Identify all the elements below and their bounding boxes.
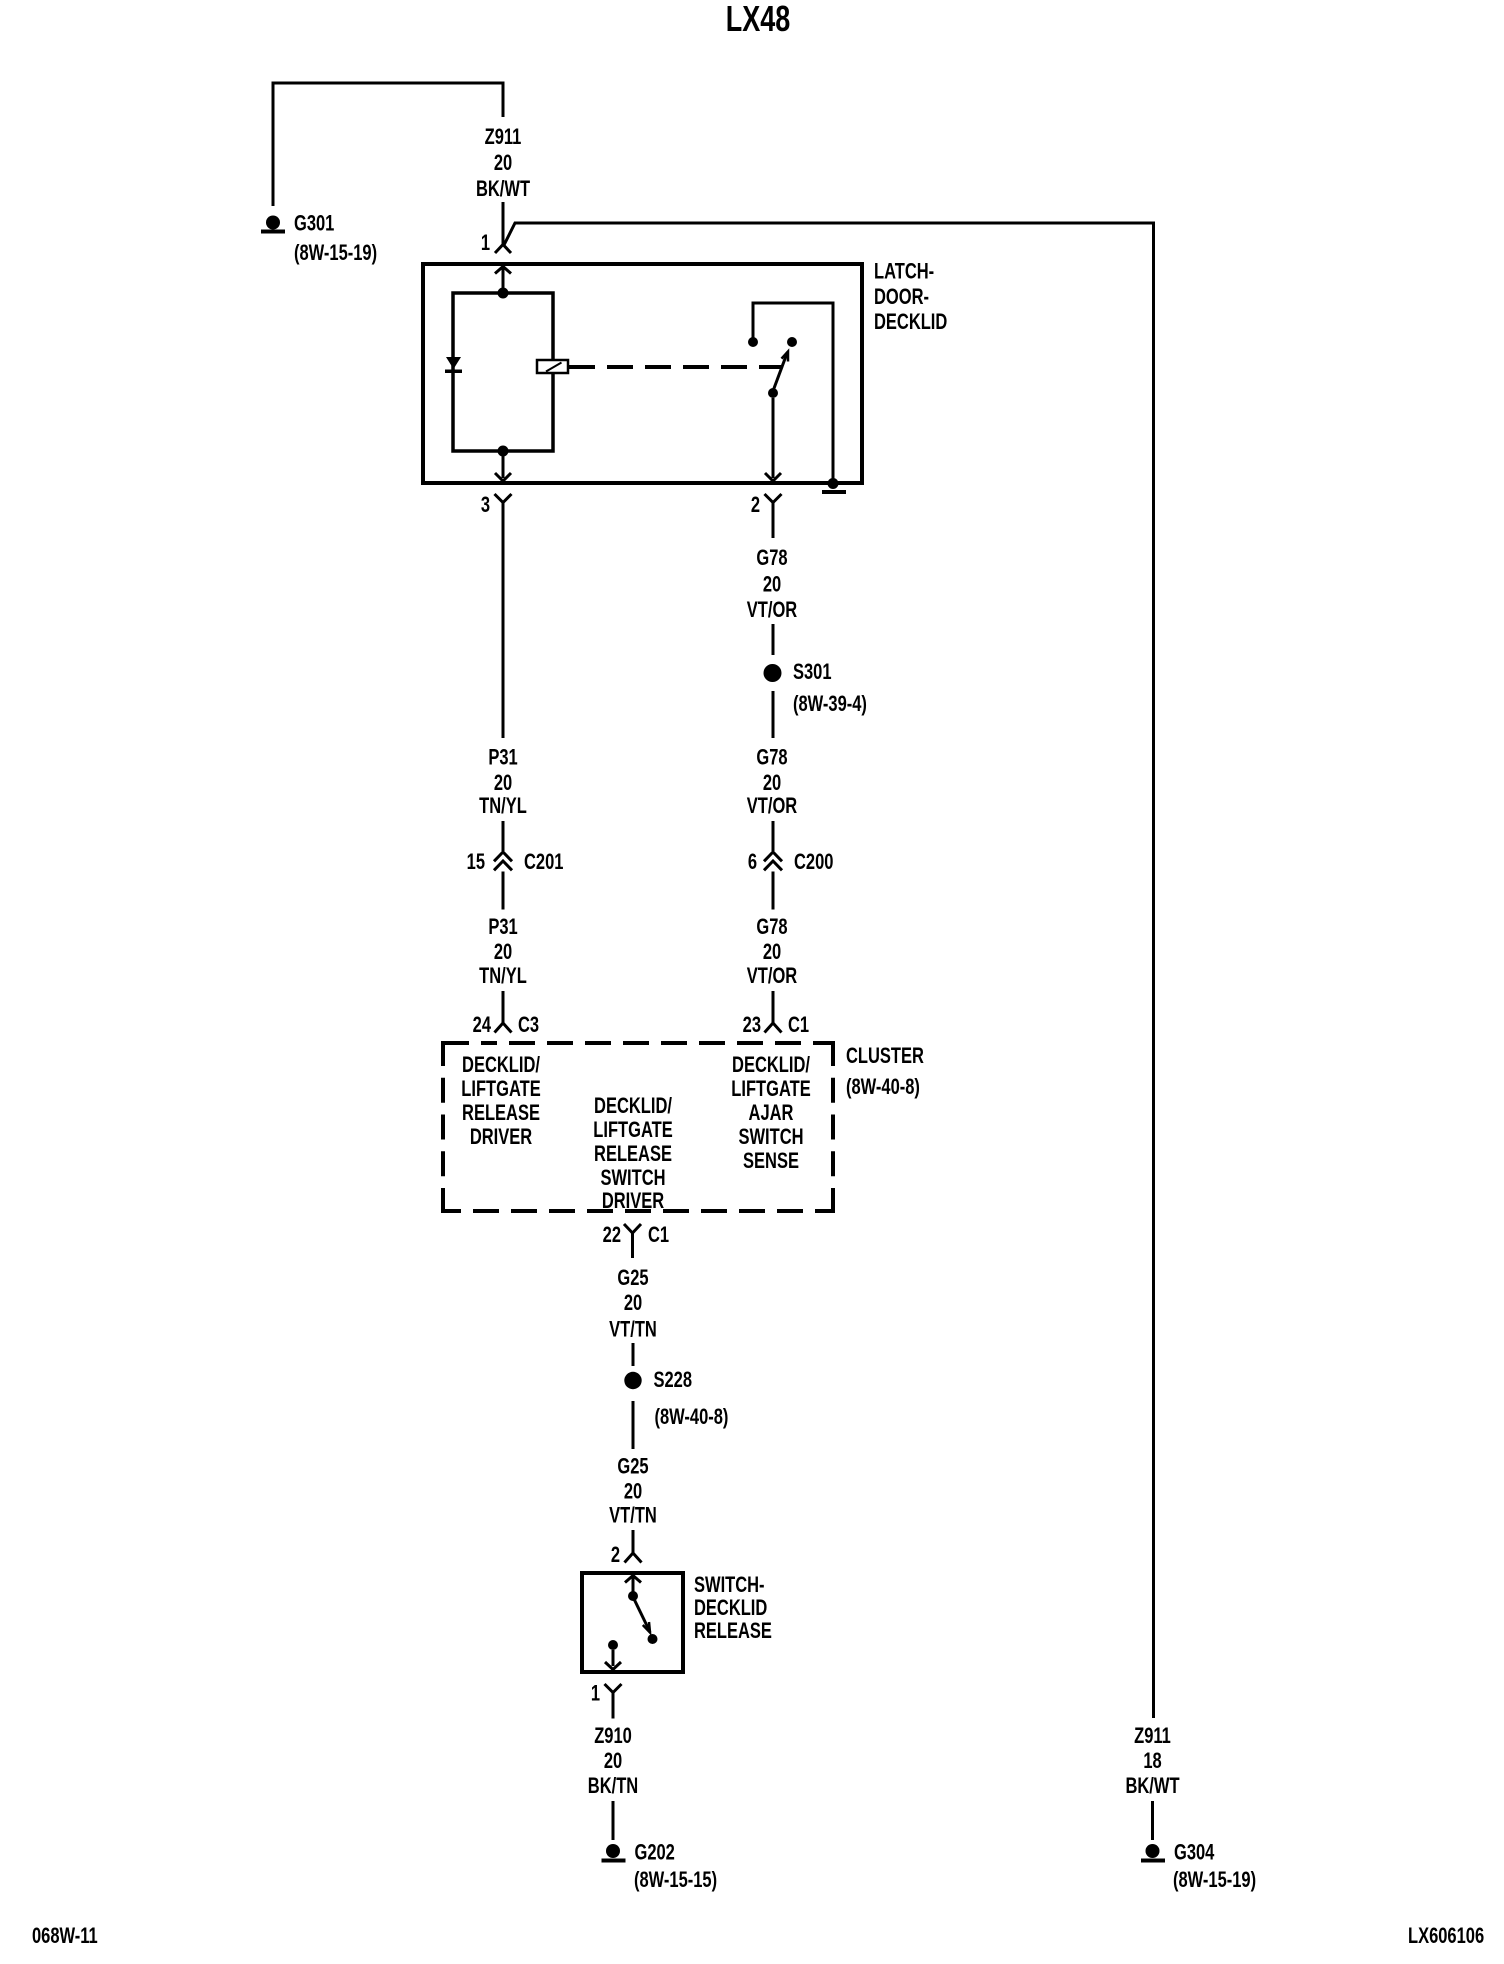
svg-text:TN/YL: TN/YL bbox=[479, 964, 527, 989]
label DECKLID/LIFTGATE AJAR SWITCH SENSE bbox=[731, 1053, 810, 1174]
svg-text:DOOR-: DOOR- bbox=[874, 285, 929, 310]
label wire Z911 18 BK/WT right bbox=[1125, 1724, 1179, 1799]
label wire Z910 20 BK/TN bbox=[588, 1724, 638, 1799]
svg-text:20: 20 bbox=[494, 940, 513, 965]
svg-text:DECKLID: DECKLID bbox=[874, 310, 947, 335]
svg-text:1: 1 bbox=[481, 231, 490, 256]
svg-text:20: 20 bbox=[763, 940, 782, 965]
svg-text:G78: G78 bbox=[756, 745, 787, 770]
junction node bottom of coil loop bbox=[498, 446, 509, 457]
svg-text:DECKLID: DECKLID bbox=[694, 1596, 767, 1621]
svg-text:BK/TN: BK/TN bbox=[588, 1774, 638, 1799]
svg-text:G304: G304 bbox=[1174, 1840, 1215, 1865]
svg-text:DRIVER: DRIVER bbox=[470, 1125, 532, 1150]
splice S301 bbox=[764, 664, 782, 682]
label wire G78 20 VT/OR lower bbox=[747, 915, 797, 989]
svg-text:G78: G78 bbox=[756, 546, 787, 571]
label wire G25 20 VT/TN bbox=[609, 1266, 657, 1342]
svg-text:SENSE: SENSE bbox=[743, 1149, 799, 1174]
connector switch pin 1 Y bbox=[605, 1684, 622, 1719]
svg-text:RELEASE: RELEASE bbox=[594, 1142, 672, 1167]
relay switch arm bbox=[768, 352, 788, 399]
svg-text:1: 1 bbox=[591, 1681, 600, 1706]
svg-text:C200: C200 bbox=[794, 850, 834, 875]
svg-text:C201: C201 bbox=[524, 850, 564, 875]
label wire Z911 20 BK/WT bbox=[476, 125, 530, 202]
relay box LATCH-DOOR-DECKLID bbox=[423, 264, 862, 483]
svg-text:22: 22 bbox=[603, 1223, 622, 1248]
wire Z910 to G202 bbox=[612, 1801, 615, 1840]
svg-text:20: 20 bbox=[494, 771, 513, 796]
svg-text:6: 6 bbox=[748, 850, 757, 875]
svg-text:VT/OR: VT/OR bbox=[747, 794, 797, 819]
svg-text:VT/TN: VT/TN bbox=[609, 1317, 657, 1342]
wire S301 to G78 bbox=[772, 691, 775, 738]
wire into S228 bbox=[632, 1343, 635, 1366]
svg-text:(8W-39-4): (8W-39-4) bbox=[793, 692, 867, 717]
svg-text:20: 20 bbox=[763, 771, 782, 796]
switch common contact bbox=[628, 1591, 638, 1601]
svg-text:2: 2 bbox=[751, 493, 760, 518]
wire into C3 bbox=[502, 991, 505, 1023]
svg-text:LX48: LX48 bbox=[726, 0, 790, 39]
svg-text:G202: G202 bbox=[635, 1840, 676, 1865]
ground G301 bbox=[261, 216, 285, 234]
svg-text:BK/WT: BK/WT bbox=[476, 177, 530, 202]
wire top-left hook from G301 to Z911 bbox=[273, 83, 503, 206]
svg-text:23: 23 bbox=[743, 1013, 762, 1038]
svg-text:RELEASE: RELEASE bbox=[462, 1101, 540, 1126]
wire into switch pin 2 bbox=[632, 1530, 635, 1553]
connector C1 fork bbox=[765, 1023, 782, 1033]
cluster box dashed bottom bbox=[443, 1209, 833, 1213]
connector pin 2 bbox=[765, 494, 782, 503]
svg-text:VT/TN: VT/TN bbox=[609, 1503, 657, 1528]
connector C200 chevrons bbox=[764, 852, 782, 870]
svg-text:P31: P31 bbox=[488, 915, 518, 940]
relay entry arrow pin1 bbox=[495, 267, 511, 292]
label wire P31 20 TN/YL lower bbox=[479, 915, 527, 989]
ground G304 bbox=[1141, 1844, 1165, 1863]
svg-text:3: 3 bbox=[481, 493, 490, 518]
svg-text:C1: C1 bbox=[788, 1013, 809, 1038]
cluster box dashed left bbox=[441, 1041, 445, 1213]
svg-text:(8W-40-8): (8W-40-8) bbox=[655, 1405, 729, 1430]
svg-text:S228: S228 bbox=[654, 1368, 693, 1393]
wire arm to pin2 with exit arrow bbox=[765, 398, 781, 481]
connector switch pin 2 fork bbox=[625, 1553, 642, 1563]
relay fixed contact and frame wires bbox=[748, 303, 833, 481]
switch box SWITCH-DECKLID RELEASE bbox=[582, 1573, 683, 1672]
svg-text:DECKLID/: DECKLID/ bbox=[462, 1053, 540, 1078]
connector pin 1 fork bbox=[495, 245, 511, 254]
diode clamp bbox=[445, 357, 462, 373]
svg-text:Z911: Z911 bbox=[485, 125, 522, 150]
svg-text:DRIVER: DRIVER bbox=[602, 1189, 664, 1214]
dashed actuation link bbox=[568, 365, 782, 369]
svg-text:18: 18 bbox=[1143, 1749, 1162, 1774]
label wire G25 20 VT/TN lower bbox=[609, 1454, 657, 1528]
svg-text:(8W-40-8): (8W-40-8) bbox=[846, 1075, 920, 1100]
connector 22 C1 Y bbox=[624, 1224, 641, 1258]
wire into C201 bbox=[502, 821, 505, 851]
relay internal ground bbox=[822, 478, 846, 494]
svg-text:BK/WT: BK/WT bbox=[1125, 1774, 1179, 1799]
svg-text:G78: G78 bbox=[756, 915, 787, 940]
svg-text:C3: C3 bbox=[518, 1013, 539, 1038]
label SWITCH-DECKLID RELEASE bbox=[694, 1573, 772, 1644]
switch output contact bbox=[608, 1640, 618, 1650]
splice S228 bbox=[624, 1372, 641, 1389]
wire Z911 stem into pin 1 bbox=[502, 202, 505, 245]
label wire G78 20 VT/OR mid bbox=[747, 745, 797, 818]
svg-text:SWITCH: SWITCH bbox=[738, 1125, 803, 1150]
svg-text:LIFTGATE: LIFTGATE bbox=[731, 1077, 810, 1102]
svg-text:S301: S301 bbox=[793, 660, 832, 685]
svg-text:AJAR: AJAR bbox=[749, 1101, 794, 1126]
svg-text:DECKLID/: DECKLID/ bbox=[732, 1053, 810, 1078]
svg-text:(8W-15-19): (8W-15-19) bbox=[1173, 1868, 1256, 1893]
svg-text:LIFTGATE: LIFTGATE bbox=[593, 1118, 672, 1143]
svg-text:P31: P31 bbox=[488, 745, 518, 770]
svg-text:SWITCH: SWITCH bbox=[600, 1166, 665, 1191]
wire S228 to G25 bbox=[632, 1401, 635, 1449]
svg-text:LX606106: LX606106 bbox=[1408, 1924, 1484, 1949]
relay coil element bbox=[537, 360, 568, 373]
switch exit arrow to pin 1 bbox=[605, 1650, 621, 1670]
relay coil loop bbox=[453, 293, 553, 451]
label wire G78 20 VT/OR bbox=[747, 546, 797, 623]
connector C3 fork bbox=[495, 1023, 512, 1033]
svg-text:LIFTGATE: LIFTGATE bbox=[461, 1077, 540, 1102]
svg-text:(8W-15-15): (8W-15-15) bbox=[634, 1868, 717, 1893]
junction node top of coil loop bbox=[498, 288, 509, 299]
cluster box dashed top bbox=[443, 1041, 833, 1045]
wire G78 lower bbox=[772, 872, 775, 910]
label DECKLID/LIFTGATE RELEASE SWITCH DRIVER bbox=[593, 1094, 672, 1214]
svg-text:G25: G25 bbox=[617, 1454, 648, 1479]
svg-text:068W-11: 068W-11 bbox=[32, 1924, 98, 1949]
wire P31 lower bbox=[502, 872, 505, 910]
cluster box dashed right bbox=[831, 1041, 835, 1213]
svg-text:VT/OR: VT/OR bbox=[747, 964, 797, 989]
wire into C1 bbox=[772, 991, 775, 1023]
svg-text:24: 24 bbox=[473, 1013, 492, 1038]
wire into S301 bbox=[772, 624, 775, 655]
svg-text:20: 20 bbox=[763, 572, 782, 597]
connector C201 chevrons bbox=[494, 852, 512, 870]
svg-text:Z910: Z910 bbox=[594, 1724, 632, 1749]
svg-text:20: 20 bbox=[494, 151, 513, 176]
label LATCH-DOOR-DECKLID bbox=[874, 259, 947, 334]
svg-text:G301: G301 bbox=[294, 211, 335, 236]
svg-text:15: 15 bbox=[467, 850, 486, 875]
svg-text:Z911: Z911 bbox=[1134, 1724, 1171, 1749]
svg-text:VT/OR: VT/OR bbox=[747, 598, 797, 623]
svg-text:20: 20 bbox=[624, 1479, 643, 1504]
wire into C200 bbox=[772, 821, 775, 851]
svg-text:CLUSTER: CLUSTER bbox=[846, 1044, 924, 1069]
label wire P31 20 TN/YL bbox=[479, 745, 527, 818]
svg-text:C1: C1 bbox=[648, 1223, 669, 1248]
svg-text:G25: G25 bbox=[617, 1266, 648, 1291]
svg-text:2: 2 bbox=[611, 1543, 620, 1568]
svg-text:LATCH-: LATCH- bbox=[874, 259, 934, 284]
svg-text:RELEASE: RELEASE bbox=[694, 1619, 772, 1644]
switch entry arrow bbox=[625, 1576, 641, 1593]
wire Z911 to G304 bbox=[1151, 1801, 1154, 1840]
svg-text:SWITCH-: SWITCH- bbox=[694, 1573, 765, 1598]
label DECKLID/LIFTGATE RELEASE DRIVER bbox=[461, 1053, 540, 1150]
svg-text:20: 20 bbox=[624, 1291, 643, 1316]
wire branch Z911 to right side down to G304 bbox=[504, 223, 1154, 1718]
svg-text:DECKLID/: DECKLID/ bbox=[594, 1094, 672, 1119]
ground G202 bbox=[602, 1844, 626, 1863]
svg-text:20: 20 bbox=[604, 1749, 623, 1774]
wire P31 upper bbox=[502, 503, 505, 739]
wire G78 upper bbox=[772, 503, 775, 539]
switch arm bbox=[635, 1600, 658, 1644]
wire coil to pin3 with exit arrow bbox=[495, 455, 511, 481]
relay switch arm contact bbox=[787, 337, 797, 347]
svg-text:TN/YL: TN/YL bbox=[479, 794, 527, 819]
connector pin 3 bbox=[495, 494, 512, 503]
svg-text:(8W-15-19): (8W-15-19) bbox=[294, 241, 377, 266]
